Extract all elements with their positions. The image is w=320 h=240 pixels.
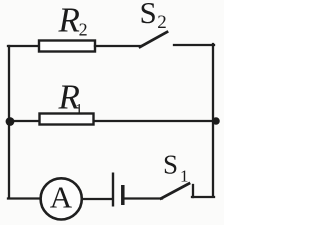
svg-text:1: 1 (75, 102, 83, 119)
svg-text:A: A (50, 180, 73, 215)
svg-text:1: 1 (180, 167, 189, 186)
svg-text:2: 2 (157, 12, 167, 33)
svg-text:S: S (163, 150, 178, 180)
svg-text:R: R (58, 1, 80, 40)
svg-text:S: S (140, 0, 157, 30)
svg-text:2: 2 (79, 20, 88, 40)
